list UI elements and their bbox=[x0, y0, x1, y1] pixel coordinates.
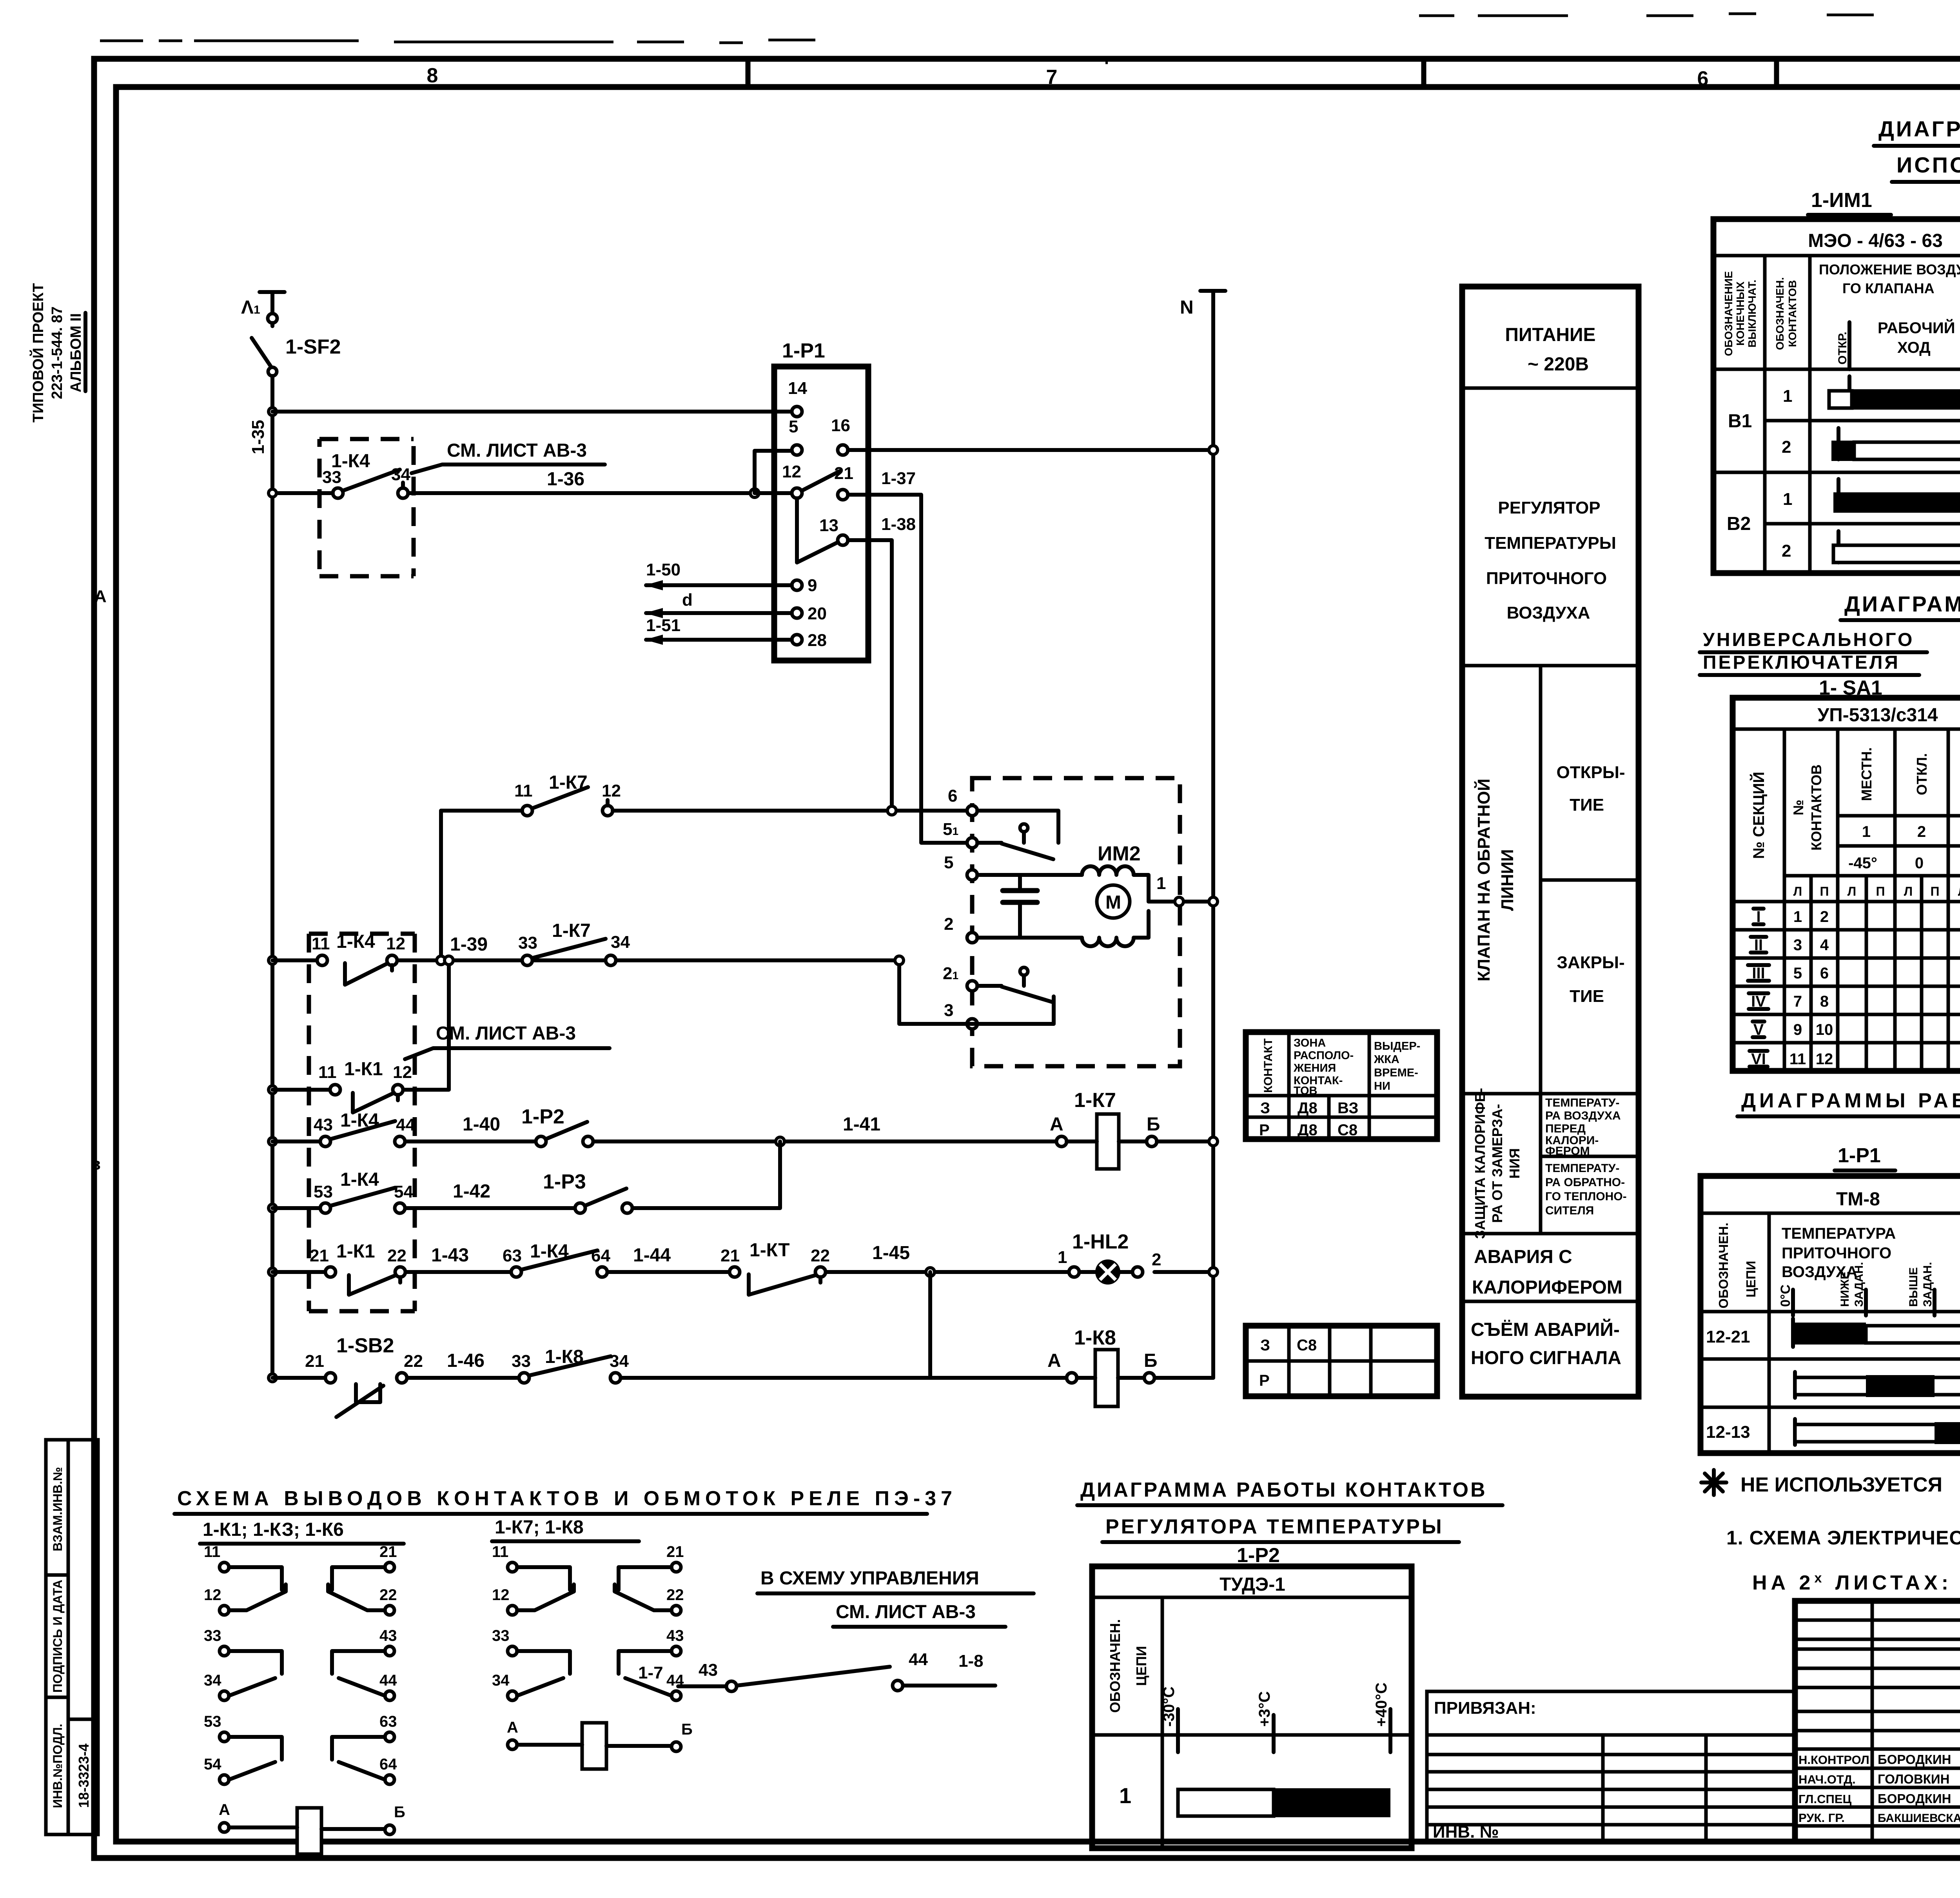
pin 5 bbox=[789, 417, 802, 455]
svg-text:НА 2х ЛИСТАХ: АВ-3 ; АВ-4: НА 2х ЛИСТАХ: АВ-3 ; АВ-4 bbox=[1752, 1571, 1960, 1594]
svg-text:ДИАГРАММА РАБОТЫ КОНТАКТОВ: ДИАГРАММА РАБОТЫ КОНТАКТОВ bbox=[1080, 1479, 1487, 1501]
svg-text:53: 53 bbox=[204, 1713, 221, 1730]
svg-text:34: 34 bbox=[492, 1672, 510, 1689]
wire 1-35 to pin 14 bbox=[249, 408, 792, 454]
svg-text:53: 53 bbox=[314, 1182, 333, 1201]
svg-text:6: 6 bbox=[1697, 67, 1709, 90]
svg-text:33: 33 bbox=[204, 1627, 221, 1644]
svg-text:1-К1: 1-К1 bbox=[344, 1059, 383, 1080]
wire pin16 to N bus bbox=[848, 446, 1218, 454]
svg-text:4: 4 bbox=[1820, 936, 1829, 954]
svg-text:1. СХЕМА ЭЛЕКТРИЧЕСКАЯ ПРИНЦ: 1. СХЕМА ЭЛЕКТРИЧЕСКАЯ ПРИНЦИПИАЛЬНАЯ ВЫ… bbox=[1726, 1527, 1960, 1549]
svg-text:1-41: 1-41 bbox=[843, 1114, 880, 1135]
wire row 1-43 / 1-44 / 1-45 bbox=[269, 1243, 925, 1276]
svg-text:ТУДЭ-1: ТУДЭ-1 bbox=[1220, 1574, 1285, 1595]
svg-text:1-Р2: 1-Р2 bbox=[521, 1105, 564, 1128]
contact 11-12 bbox=[229, 1567, 286, 1610]
table TUDE-1 bbox=[1092, 1566, 1412, 1848]
svg-text:ОБОЗНАЧЕН.: ОБОЗНАЧЕН. bbox=[1716, 1223, 1731, 1308]
svg-text:РЕГУЛЯТОРА ТЕМПЕРАТУРЫ: РЕГУЛЯТОРА ТЕМПЕРАТУРЫ bbox=[1105, 1515, 1444, 1538]
svg-text:1: 1 bbox=[1058, 1248, 1067, 1267]
svg-text:АЛЬБОМ II: АЛЬБОМ II bbox=[68, 313, 84, 392]
svg-text:ТЕМПЕРАТУ-: ТЕМПЕРАТУ- bbox=[1545, 1162, 1619, 1175]
push button 1-SB2 bbox=[305, 1334, 423, 1417]
svg-text:N: N bbox=[1180, 297, 1194, 318]
svg-text:-45°: -45° bbox=[1848, 855, 1877, 872]
svg-text:64: 64 bbox=[379, 1756, 397, 1773]
svg-text:Б: Б bbox=[394, 1804, 405, 1821]
svg-text:РА ВОЗДУХА: РА ВОЗДУХА bbox=[1545, 1109, 1621, 1122]
svg-text:Б: Б bbox=[681, 1721, 693, 1738]
svg-text:1-Р2: 1-Р2 bbox=[1237, 1544, 1280, 1567]
svg-text:Н.КОНТРОЛ: Н.КОНТРОЛ bbox=[1798, 1753, 1869, 1767]
torn scan edge line at very top bbox=[100, 41, 743, 43]
pin 20 with arrow d bbox=[645, 590, 827, 623]
pin 28 with arrow 1-51 bbox=[645, 616, 827, 650]
svg-text:43: 43 bbox=[666, 1627, 684, 1644]
svg-text:223-1-544. 87: 223-1-544. 87 bbox=[49, 307, 65, 399]
svg-text:МЭО - 4/63 - 63: МЭО - 4/63 - 63 bbox=[1808, 230, 1943, 251]
svg-text:44: 44 bbox=[379, 1672, 397, 1689]
svg-text:МЕСТН.: МЕСТН. bbox=[1858, 747, 1875, 801]
svg-text:12: 12 bbox=[492, 1586, 510, 1604]
contact 33-34 bbox=[229, 1651, 282, 1696]
svg-text:5: 5 bbox=[789, 417, 798, 436]
svg-text:ОБОЗНАЧЕН.: ОБОЗНАЧЕН. bbox=[1774, 277, 1786, 350]
svg-text:1-КТ: 1-КТ bbox=[750, 1240, 790, 1261]
svg-text:1-51: 1-51 bbox=[646, 616, 681, 635]
zone table (Kontakt/Zona/Vyderzhka) bbox=[1246, 1032, 1437, 1139]
L P header cells bbox=[1811, 876, 1960, 1071]
svg-text:ГО КЛАПАНА: ГО КЛАПАНА bbox=[1842, 280, 1935, 296]
wire row 1-39 bbox=[269, 934, 904, 965]
svg-text:Л: Л bbox=[1904, 884, 1913, 898]
svg-text:ЦЕПИ: ЦЕПИ bbox=[1744, 1261, 1758, 1297]
legend cell: valve (rotated) bbox=[1474, 778, 1517, 982]
contact blade 12-21 bbox=[802, 471, 840, 491]
note: not used bbox=[1701, 1470, 1726, 1495]
pin 12 bbox=[782, 462, 802, 498]
svg-text:СМ. ЛИСТ АВ-3: СМ. ЛИСТ АВ-3 bbox=[447, 440, 587, 461]
svg-text:ПРИТОЧНОГО: ПРИТОЧНОГО bbox=[1782, 1245, 1891, 1262]
contact 1-K4 33-34 bbox=[319, 439, 414, 576]
lamp 1-HL2 bbox=[935, 1230, 1218, 1283]
svg-text:34: 34 bbox=[610, 1352, 629, 1371]
contact 11-12 bbox=[517, 1567, 574, 1610]
svg-text:ПРИВЯЗАН:: ПРИВЯЗАН: bbox=[1434, 1698, 1536, 1718]
svg-text:НОГО СИГНАЛА: НОГО СИГНАЛА bbox=[1471, 1348, 1621, 1368]
svg-text:43: 43 bbox=[314, 1115, 333, 1134]
svg-text:ИНВ. №: ИНВ. № bbox=[1433, 1822, 1499, 1842]
svg-text:1-44: 1-44 bbox=[633, 1245, 671, 1266]
svg-text:7: 7 bbox=[1793, 993, 1802, 1010]
svg-text:1-SB2: 1-SB2 bbox=[336, 1334, 394, 1357]
svg-text:1: 1 bbox=[1793, 908, 1802, 925]
svg-text:12: 12 bbox=[393, 1063, 412, 1082]
label 1-P1 bbox=[1835, 1144, 1895, 1170]
svg-text:22: 22 bbox=[379, 1586, 397, 1604]
contact 1-K7 33-34 bbox=[518, 920, 630, 965]
svg-text:РУК. ГР.: РУК. ГР. bbox=[1798, 1811, 1845, 1825]
title line 2 bbox=[1892, 152, 1960, 182]
svg-text:21: 21 bbox=[379, 1543, 397, 1560]
pin 5' bbox=[943, 820, 977, 848]
svg-text:С8: С8 bbox=[1338, 1121, 1357, 1139]
svg-text:13: 13 bbox=[819, 516, 838, 535]
svg-text:Л: Л bbox=[1958, 884, 1960, 898]
svg-text:2: 2 bbox=[1917, 823, 1926, 840]
left signature grid bbox=[1872, 1601, 1960, 1842]
svg-text:11: 11 bbox=[1789, 1051, 1806, 1068]
svg-text:ГЛ.СПЕЦ: ГЛ.СПЕЦ bbox=[1798, 1792, 1852, 1806]
top ruler ticks bbox=[748, 59, 1960, 87]
svg-text:ОТКР.: ОТКР. bbox=[1836, 332, 1849, 365]
svg-text:НИЖЕ: НИЖЕ bbox=[1838, 1272, 1851, 1307]
svg-text:Д8: Д8 bbox=[1298, 1100, 1318, 1117]
svg-text:1-К7: 1-К7 bbox=[1074, 1089, 1116, 1112]
svg-text:П: П bbox=[1820, 884, 1829, 898]
svg-text:11: 11 bbox=[312, 934, 330, 953]
left margin rotated stamp text bbox=[29, 283, 85, 423]
svg-text:ЗОНА: ЗОНА bbox=[1294, 1037, 1326, 1049]
contact 1-K7 11-12 upper row bbox=[514, 772, 621, 816]
svg-text:-30°С: -30°С bbox=[1160, 1686, 1178, 1727]
svg-text:1-К7: 1-К7 bbox=[552, 920, 591, 941]
wire upper K7 row bbox=[441, 809, 972, 813]
svg-text:20: 20 bbox=[808, 604, 827, 623]
contact 1-K4 53-54 bbox=[314, 1169, 413, 1213]
pin 6 bbox=[948, 786, 977, 816]
svg-text:1-Р1: 1-Р1 bbox=[782, 339, 825, 362]
svg-text:1-Р3: 1-Р3 bbox=[543, 1170, 586, 1193]
svg-text:ПОЛОЖЕНИЕ ВОЗДУШНО-: ПОЛОЖЕНИЕ ВОЗДУШНО- bbox=[1819, 261, 1960, 278]
legend cell: power supply bbox=[1505, 325, 1595, 375]
svg-text:1-8: 1-8 bbox=[958, 1651, 984, 1671]
svg-text:21: 21 bbox=[720, 1246, 740, 1265]
svg-text:1: 1 bbox=[1783, 490, 1792, 509]
svg-text:d: d bbox=[682, 590, 693, 610]
svg-text:В2: В2 bbox=[1727, 514, 1751, 534]
wire row 1-K1 bbox=[269, 956, 453, 1094]
main stamp outline bbox=[1795, 1601, 1960, 1842]
svg-text:КОНТАКТОВ: КОНТАКТОВ bbox=[1786, 280, 1798, 347]
svg-text:ИНВ.№ПОДЛ.: ИНВ.№ПОДЛ. bbox=[51, 1724, 65, 1808]
wire row 1-42 / 1-P3 bbox=[269, 1141, 780, 1212]
title bbox=[1077, 1479, 1503, 1505]
svg-text:33: 33 bbox=[322, 468, 341, 487]
svg-text:1-SF2: 1-SF2 bbox=[285, 336, 341, 358]
svg-text:ОБОЗНАЧЕНИЕ: ОБОЗНАЧЕНИЕ bbox=[1722, 271, 1735, 356]
note: to control circuit bbox=[757, 1568, 1034, 1593]
limit switch upper bbox=[977, 824, 1053, 859]
svg-text:ГОЛОВКИН: ГОЛОВКИН bbox=[1878, 1772, 1949, 1786]
svg-text:2: 2 bbox=[1152, 1250, 1161, 1269]
svg-text:12: 12 bbox=[204, 1586, 221, 1604]
svg-text:1-Р1: 1-Р1 bbox=[1838, 1144, 1881, 1167]
svg-text:1-50: 1-50 bbox=[646, 560, 681, 579]
svg-text:1-38: 1-38 bbox=[881, 515, 916, 534]
svg-text:ДИАГРАММЫ РАБОТЫ КОНТАКТОВ РЕГ: ДИАГРАММЫ РАБОТЫ КОНТАКТОВ РЕГУЛЯТОРОВ Т… bbox=[1741, 1089, 1960, 1112]
relay box 1-P1 bbox=[774, 339, 868, 660]
svg-text:5: 5 bbox=[944, 853, 953, 872]
svg-text:З: З bbox=[1260, 1337, 1270, 1354]
svg-text:ВЗАМ.ИНВ.№: ВЗАМ.ИНВ.№ bbox=[51, 1467, 65, 1551]
svg-text:1-К8: 1-К8 bbox=[1074, 1326, 1116, 1349]
svg-text:ЗАДАН.: ЗАДАН. bbox=[1921, 1262, 1934, 1307]
svg-text:1-39: 1-39 bbox=[450, 934, 488, 955]
svg-text:6: 6 bbox=[948, 786, 957, 806]
svg-text:Л: Л bbox=[1793, 884, 1802, 898]
table 1-SA1 UP-5313 bbox=[1733, 698, 1960, 1071]
svg-text:БОРОДКИН: БОРОДКИН bbox=[1878, 1791, 1951, 1806]
svg-text:2: 2 bbox=[944, 915, 953, 934]
svg-text:ТЕМПЕРАТУ-: ТЕМПЕРАТУ- bbox=[1545, 1096, 1619, 1109]
svg-text:НИ: НИ bbox=[1374, 1080, 1390, 1092]
svg-text:ЗАДАН.: ЗАДАН. bbox=[1853, 1262, 1866, 1307]
svg-text:ИМ2: ИМ2 bbox=[1098, 842, 1141, 865]
svg-text:9: 9 bbox=[808, 576, 817, 595]
svg-text:ФЕРОМ: ФЕРОМ bbox=[1545, 1145, 1590, 1158]
wire 1-38 bbox=[848, 515, 916, 810]
wire L1 bus bbox=[270, 376, 274, 1378]
svg-text:12: 12 bbox=[782, 462, 801, 481]
svg-text:28: 28 bbox=[808, 631, 827, 650]
contact 1-K1 11-12 bbox=[318, 1059, 412, 1112]
wire row 1-46 / SB2 bbox=[269, 1350, 1213, 1382]
section title bbox=[174, 1487, 957, 1514]
contact 1-K4 63-64 bbox=[503, 1241, 610, 1277]
svg-text:СИТЕЛЯ: СИТЕЛЯ bbox=[1545, 1204, 1594, 1217]
legend cell: alarm reset bbox=[1471, 1319, 1621, 1368]
svg-text:+3°С: +3°С bbox=[1256, 1691, 1273, 1727]
svg-text:ОТКРЫ-: ОТКРЫ- bbox=[1556, 763, 1625, 782]
svg-text:1-К1; 1-КЗ; 1-К6: 1-К1; 1-КЗ; 1-К6 bbox=[203, 1519, 344, 1540]
svg-text:ЗАКРЫ-: ЗАКРЫ- bbox=[1557, 953, 1624, 972]
svg-text:ТОВ: ТОВ bbox=[1294, 1085, 1318, 1097]
label 1-SA1 bbox=[1819, 677, 1882, 699]
svg-text:8: 8 bbox=[1820, 993, 1829, 1010]
svg-text:1-45: 1-45 bbox=[872, 1243, 910, 1263]
title bbox=[1737, 1089, 1960, 1116]
svg-text:1-К1: 1-К1 bbox=[336, 1241, 375, 1262]
svg-text:22: 22 bbox=[404, 1352, 423, 1371]
svg-text:1-43: 1-43 bbox=[431, 1245, 469, 1266]
pin 2 bbox=[944, 915, 977, 943]
svg-text:РЕГУЛЯТОР: РЕГУЛЯТОР bbox=[1498, 498, 1600, 517]
svg-text:Р: Р bbox=[1259, 1121, 1270, 1139]
legend cell: accident bbox=[1472, 1247, 1622, 1298]
roman numeral serifs bbox=[1753, 909, 1764, 924]
wire N bus bbox=[1211, 314, 1215, 1378]
svg-text:21: 21 bbox=[834, 464, 853, 483]
svg-text:33: 33 bbox=[518, 933, 537, 953]
contact 1-P3 bbox=[543, 1170, 632, 1213]
svg-text:СМ. ЛИСТ АВ-3: СМ. ЛИСТ АВ-3 bbox=[836, 1602, 976, 1622]
bars row3 bbox=[1837, 479, 1840, 510]
svg-text:7: 7 bbox=[1046, 66, 1058, 89]
privyazan block bbox=[1427, 1691, 1795, 1842]
svg-text:КОНТАКТ: КОНТАКТ bbox=[1262, 1038, 1275, 1093]
wire jog to pin 5 bbox=[750, 451, 792, 497]
svg-text:34: 34 bbox=[611, 933, 630, 952]
svg-text:ИСПОЛНИТЕЛЬНЫХ МЕХАНИЗМОВ: ИСПОЛНИТЕЛЬНЫХ МЕХАНИЗМОВ bbox=[1896, 152, 1960, 177]
svg-text:А: А bbox=[94, 587, 107, 606]
svg-text:21: 21 bbox=[666, 1543, 684, 1560]
svg-text:ДИАГРАММА РАБОТЫ КОНТАКТОВ: ДИАГРАММА РАБОТЫ КОНТАКТОВ bbox=[1844, 592, 1960, 616]
pin 9 with arrow 1-50 bbox=[645, 560, 817, 595]
wire vertical joins bbox=[439, 811, 443, 960]
svg-text:1-К4: 1-К4 bbox=[340, 1169, 379, 1190]
wire pin6 branch bbox=[977, 811, 1058, 843]
svg-text:НИЯ: НИЯ bbox=[1506, 1148, 1523, 1179]
svg-text:6: 6 bbox=[1820, 965, 1829, 982]
svg-text:З: З bbox=[1260, 1100, 1270, 1117]
svg-text:ВОЗДУХА: ВОЗДУХА bbox=[1507, 603, 1590, 622]
svg-text:~ 220В: ~ 220В bbox=[1528, 354, 1589, 375]
svg-text:0°С: 0°С bbox=[1778, 1285, 1793, 1307]
svg-text:КЛАПАН НА ОБРАТНОЙ: КЛАПАН НА ОБРАТНОЙ bbox=[1474, 778, 1494, 982]
legend cell: protect (rotated) bbox=[1472, 1088, 1523, 1239]
svg-text:12: 12 bbox=[1816, 1051, 1833, 1068]
svg-text:33: 33 bbox=[492, 1627, 510, 1644]
table 1-IM1 MEO-4/63-63 bbox=[1713, 219, 1960, 573]
note see sheet AB-3 bbox=[412, 440, 605, 473]
contact 1-K1 21-22 bbox=[310, 1241, 407, 1295]
contact 21-22 bbox=[328, 1567, 385, 1610]
svg-text:5: 5 bbox=[1793, 965, 1802, 982]
svg-text:ЖКА: ЖКА bbox=[1374, 1053, 1399, 1066]
svg-text:ПИТАНИЕ: ПИТАНИЕ bbox=[1505, 325, 1595, 345]
contact 1-K8 33-34 bbox=[512, 1346, 629, 1383]
svg-text:КОНЕЧНЫХ: КОНЕЧНЫХ bbox=[1734, 281, 1746, 346]
svg-text:12: 12 bbox=[386, 934, 405, 953]
svg-text:ПЕРЕД: ПЕРЕД bbox=[1545, 1122, 1586, 1135]
svg-text:11: 11 bbox=[204, 1543, 220, 1560]
svg-text:11: 11 bbox=[318, 1063, 337, 1082]
svg-text:11: 11 bbox=[514, 781, 533, 800]
motor M bbox=[1097, 885, 1130, 918]
svg-text:ВЫШЕ: ВЫШЕ bbox=[1907, 1267, 1920, 1307]
svg-text:№ СЕКЦИЙ: № СЕКЦИЙ bbox=[1749, 772, 1768, 859]
legend cell: temp before heater bbox=[1545, 1096, 1621, 1158]
svg-text:СМ. ЛИСТ АВ-3: СМ. ЛИСТ АВ-3 bbox=[436, 1023, 576, 1044]
svg-text:2: 2 bbox=[1782, 437, 1791, 457]
svg-text:1: 1 bbox=[1156, 874, 1166, 893]
table TM-8 (1-P1) bbox=[1700, 1176, 1960, 1453]
svg-text:С8: С8 bbox=[1297, 1337, 1317, 1354]
svg-text:12-21: 12-21 bbox=[1706, 1327, 1750, 1346]
contact 33-34 bbox=[517, 1651, 570, 1696]
svg-text:+40°С: +40°С bbox=[1373, 1682, 1390, 1727]
svg-text:34: 34 bbox=[204, 1672, 221, 1689]
relay pinout group 1 bbox=[204, 1543, 405, 1854]
node A1 terminal bbox=[241, 292, 285, 318]
svg-text:54: 54 bbox=[394, 1182, 413, 1201]
svg-text:34: 34 bbox=[391, 465, 410, 484]
svg-text:22: 22 bbox=[666, 1586, 684, 1604]
contact 1-K4 11-12 bbox=[312, 931, 405, 985]
relay pinout group 2 bbox=[492, 1543, 693, 1769]
bars row4 bbox=[1838, 531, 1960, 563]
svg-text:10: 10 bbox=[1816, 1021, 1833, 1038]
inductor upper bbox=[1082, 866, 1134, 875]
wire pin2 to lower winding bbox=[977, 936, 1082, 940]
svg-text:16: 16 bbox=[831, 416, 850, 435]
svg-text:43: 43 bbox=[379, 1627, 397, 1644]
svg-text:НАЧ.ОТД.: НАЧ.ОТД. bbox=[1798, 1773, 1856, 1786]
svg-text:ВЫКЛЮЧАТ.: ВЫКЛЮЧАТ. bbox=[1746, 279, 1758, 347]
inductor lower bbox=[1082, 938, 1134, 946]
pin 5 bbox=[944, 853, 977, 880]
contact 63-64 bbox=[332, 1737, 385, 1780]
svg-text:1-40: 1-40 bbox=[463, 1114, 500, 1135]
svg-text:2: 2 bbox=[1782, 541, 1791, 561]
svg-text:АВАРИЯ С: АВАРИЯ С bbox=[1474, 1247, 1572, 1267]
svg-text:ТЕМПЕРАТУРА: ТЕМПЕРАТУРА bbox=[1782, 1225, 1896, 1242]
svg-text:1-7: 1-7 bbox=[638, 1663, 663, 1682]
svg-text:ПЕРЕКЛЮЧАТЕЛЯ: ПЕРЕКЛЮЧАТЕЛЯ bbox=[1703, 652, 1900, 673]
svg-text:ПРИТОЧНОГО: ПРИТОЧНОГО bbox=[1486, 569, 1607, 588]
subtitle 1-K1 1-K3 1-K6 bbox=[200, 1519, 404, 1544]
svg-text:ТЕМПЕРАТУРЫ: ТЕМПЕРАТУРЫ bbox=[1485, 533, 1616, 553]
svg-text:1: 1 bbox=[1783, 386, 1792, 406]
svg-text:12: 12 bbox=[602, 781, 621, 800]
pin 1 wire to N bbox=[1149, 874, 1218, 906]
svg-text:РА ОБРАТНО-: РА ОБРАТНО- bbox=[1545, 1176, 1625, 1189]
wire 1-7 contact 43-44 1-8 bbox=[638, 1650, 995, 1691]
left bottom stamp boxes bbox=[46, 1440, 98, 1834]
svg-text:в: в bbox=[90, 1154, 101, 1174]
svg-text:ЗАЩИТА КАЛОРИФЕ-: ЗАЩИТА КАЛОРИФЕ- bbox=[1472, 1088, 1488, 1239]
contact 1-K4 43-44 bbox=[314, 1110, 415, 1147]
legend cell: regulator bbox=[1485, 498, 1616, 622]
svg-text:РАСПОЛО-: РАСПОЛО- bbox=[1294, 1049, 1354, 1062]
svg-text:ПОДПИСЬ И ДАТА: ПОДПИСЬ И ДАТА bbox=[51, 1580, 65, 1693]
svg-text:ЛИНИИ: ЛИНИИ bbox=[1498, 849, 1517, 911]
pin 3 bbox=[944, 1001, 977, 1029]
svg-text:БОРОДКИН: БОРОДКИН bbox=[1878, 1752, 1951, 1767]
svg-text:3: 3 bbox=[1793, 936, 1802, 954]
svg-text:СХЕМА ВЫВОДОВ КОНТАКТОВ И ОБМО: СХЕМА ВЫВОДОВ КОНТАКТОВ И ОБМОТОК РЕЛЕ П… bbox=[177, 1487, 957, 1510]
contact 1-K7 21-22 bbox=[720, 1240, 830, 1295]
contact 53-54 bbox=[229, 1737, 282, 1780]
pin 16 bbox=[831, 416, 850, 455]
svg-text:8: 8 bbox=[427, 64, 438, 87]
contact blade to 13 bbox=[797, 498, 838, 563]
relay coil 1-K8 bbox=[1047, 1326, 1158, 1406]
wire row 1-40 / 1-41 bbox=[269, 1114, 1056, 1145]
svg-text:33: 33 bbox=[512, 1352, 531, 1371]
svg-text:№: № bbox=[1790, 800, 1806, 815]
svg-text:П: П bbox=[1931, 884, 1940, 898]
dashed box IM2 bbox=[972, 778, 1180, 1066]
svg-text:12-13: 12-13 bbox=[1706, 1423, 1750, 1442]
zone table 2 (3/P C8) bbox=[1246, 1326, 1437, 1396]
bars row1 bbox=[1849, 376, 1960, 408]
svg-text:1-ИМ1: 1-ИМ1 bbox=[1811, 189, 1872, 212]
svg-text:1-37: 1-37 bbox=[881, 469, 916, 488]
label 1-IM1 bbox=[1808, 189, 1891, 215]
pin 13 bbox=[819, 516, 848, 545]
svg-text:3: 3 bbox=[944, 1001, 953, 1020]
wire vertical to SB2 row bbox=[926, 1268, 935, 1378]
svg-text:В1: В1 bbox=[1728, 411, 1752, 432]
svg-text:Л: Л bbox=[1847, 884, 1856, 898]
svg-text:ХОД: ХОД bbox=[1897, 339, 1931, 356]
svg-text:14: 14 bbox=[788, 379, 807, 398]
svg-text:9: 9 bbox=[1793, 1021, 1802, 1038]
svg-text:А: А bbox=[507, 1719, 518, 1736]
